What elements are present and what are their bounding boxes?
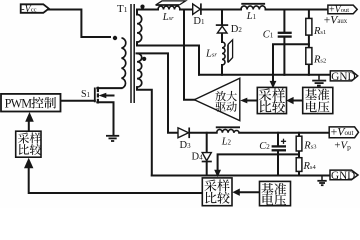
wire winding2 top to D3 xyxy=(137,53,179,132)
wire D3 to L2 xyxy=(190,132,217,134)
wire reference to sample comparator (bottom) xyxy=(240,191,260,193)
channel segments xyxy=(97,87,99,92)
svg-text:GND: GND xyxy=(331,71,355,83)
svg-text:C2: C2 xyxy=(259,141,270,152)
svg-text:+Vp: +Vp xyxy=(334,139,351,151)
wire divider2 tap to bottom sample comparator xyxy=(218,154,299,169)
box sample comparator (left) xyxy=(16,131,41,157)
secondary winding 2 xyxy=(137,53,142,87)
text 采样比较 (left box) xyxy=(18,132,41,155)
secondary winding 1 xyxy=(137,15,142,43)
svg-text:S1: S1 xyxy=(81,89,91,100)
saturable reactor Lsr2 xyxy=(222,40,233,65)
wire Rs4 bottom lead xyxy=(298,171,300,175)
box reference voltage (top) xyxy=(303,87,333,113)
diode D2 xyxy=(216,25,228,33)
ground (top right) xyxy=(312,75,326,86)
svg-text:L1: L1 xyxy=(246,11,257,22)
svg-text:T1: T1 xyxy=(117,3,128,15)
wire D1 cathode to L1 xyxy=(201,9,241,11)
svg-text:Rs4: Rs4 xyxy=(303,161,317,172)
box PWM control xyxy=(1,94,61,112)
wire reference to sample comparator (top) xyxy=(294,100,303,102)
terminal tag GND (bottom) xyxy=(330,170,358,182)
ground (MOSFET source) xyxy=(106,136,119,141)
diode D4 xyxy=(202,153,212,162)
svg-text:Lsr: Lsr xyxy=(162,12,174,23)
wire MOSFET body arrow lead xyxy=(105,95,114,97)
wire D4 to ground rail xyxy=(206,163,208,176)
wire D4 branch xyxy=(206,133,208,153)
box sample comparator (bottom) xyxy=(202,178,232,206)
svg-text:D2: D2 xyxy=(231,24,243,35)
wire C2 top lead xyxy=(277,133,279,146)
arrow into bottom comparator from divider2 xyxy=(214,170,221,177)
svg-text:GND: GND xyxy=(331,170,355,182)
wire C1 bottom lead xyxy=(283,38,285,75)
wire mag-amp control: D1 anode node down to amplifier tip xyxy=(184,10,194,100)
wire D2 to Lsr2 xyxy=(221,33,223,42)
dot secondary 1 xyxy=(140,5,144,9)
wire Lsr2 to return rail xyxy=(221,65,223,75)
capacitor C1 xyxy=(278,33,292,37)
svg-text:Rs2: Rs2 xyxy=(313,55,326,66)
svg-text:PWM: PWM xyxy=(5,96,33,110)
svg-text:+Vaux: +Vaux xyxy=(324,15,348,27)
terminal tag +Vout (top) xyxy=(328,4,357,15)
wire Rs1-Rs2 link xyxy=(308,35,310,48)
text 采样比较 (bottom box) xyxy=(204,179,229,203)
svg-text:+Vout: +Vout xyxy=(329,4,349,15)
dot secondary 2 xyxy=(142,57,146,61)
svg-text:C1: C1 xyxy=(263,30,274,41)
wire Rs2 bottom lead xyxy=(308,64,310,75)
text 基准电压 (top box) xyxy=(305,89,329,113)
wire C2 bottom lead xyxy=(277,151,279,175)
box reference voltage (bottom) xyxy=(260,181,291,205)
svg-text:D1: D1 xyxy=(193,16,205,27)
svg-text:D4: D4 xyxy=(192,152,204,163)
gate bar xyxy=(94,88,96,103)
wire left comparator to PWM control xyxy=(28,122,30,132)
wire MOSFET drain to primary bottom xyxy=(97,87,121,89)
MOSFET S1 xyxy=(95,87,98,104)
arrow into top comparator from reference xyxy=(286,97,293,104)
svg-text:L2: L2 xyxy=(221,136,232,147)
resistor Rs1 xyxy=(306,18,312,35)
text 基准电压 (bottom box) xyxy=(261,183,286,206)
wire D2 branch from top rail xyxy=(221,10,223,25)
wire L1 to Vout tag xyxy=(266,9,328,11)
transformer T1 xyxy=(122,15,142,89)
arrow into left comparator from feedback xyxy=(24,158,33,169)
svg-text:D3: D3 xyxy=(180,140,192,151)
body diode arrow xyxy=(99,93,107,98)
plus sign C2 xyxy=(281,139,286,144)
wire top rail winding1 to Lsr1 xyxy=(137,10,158,15)
core T1 xyxy=(131,4,134,103)
diode D3 xyxy=(178,128,189,139)
svg-text:-Vcc: -Vcc xyxy=(21,4,36,15)
resistor Rs4 xyxy=(296,158,302,172)
svg-text:Rs1: Rs1 xyxy=(313,26,326,37)
dot primary xyxy=(113,36,117,40)
wire top return rail xyxy=(199,74,330,76)
amplifier/driver triangle xyxy=(194,78,240,120)
wire divider tap to sample comparator xyxy=(273,44,309,81)
svg-text:Rs3: Rs3 xyxy=(303,140,316,151)
wire Vcc input to transformer primary xyxy=(49,10,110,38)
arrow into bottom comparator from reference xyxy=(232,189,239,196)
arrow into top comparator from divider xyxy=(270,81,277,88)
diode D1 xyxy=(193,3,201,15)
inductor L1 xyxy=(241,4,266,10)
terminal tag +Vout (bottom) xyxy=(329,125,358,139)
wire bottom ground rail xyxy=(152,175,330,177)
wire Rs3 top lead xyxy=(298,133,300,136)
wire C1 top lead xyxy=(283,10,285,32)
svg-text:Lsr: Lsr xyxy=(205,49,217,60)
wire MOSFET source to ground xyxy=(97,102,113,135)
wire PWM output to gate xyxy=(61,100,95,102)
wire winding1 bottom return xyxy=(137,42,199,75)
ground (bottom right) xyxy=(317,176,326,186)
text 采样比较 (top box) xyxy=(259,88,285,112)
text 放大驱动 xyxy=(215,91,237,112)
arrow into amplifier xyxy=(240,98,247,104)
wire L2 to Vout2 tag xyxy=(239,132,329,134)
box sample comparator (top) xyxy=(257,87,286,113)
wire Rs1 top lead xyxy=(308,10,310,19)
wire feedback from bottom comparator to left comparator xyxy=(29,168,203,193)
arrow into PWM from left comparator xyxy=(25,112,34,122)
wire amplifier input from sample comparator xyxy=(247,100,258,102)
capacitor C2 xyxy=(272,146,286,150)
resistor Rs3 xyxy=(296,136,302,151)
wire winding2 bottom to bottom ground rail xyxy=(137,87,152,175)
saturable reactor Lsr1 xyxy=(156,1,186,10)
inductor L2 xyxy=(216,127,240,133)
terminal tag GND (top) xyxy=(330,71,357,83)
resistor Rs2 xyxy=(306,48,312,65)
terminal tag -Vcc xyxy=(21,4,49,15)
wire Lsr1 to D1 anode xyxy=(180,9,193,11)
primary winding xyxy=(122,38,126,88)
wire Rs3-Rs4 link xyxy=(298,151,300,158)
